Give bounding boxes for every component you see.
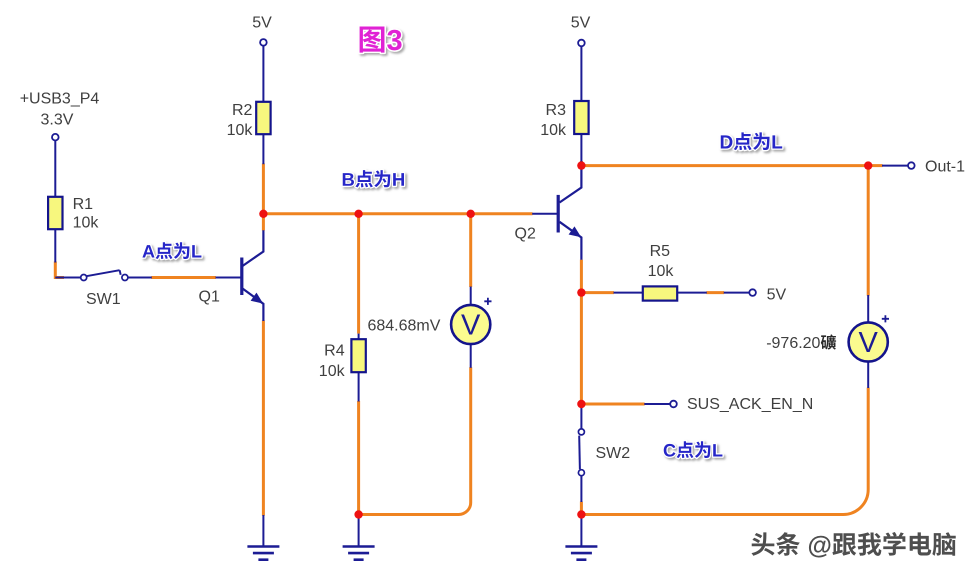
svg-text:5V: 5V [252,15,272,32]
svg-text:SUS_ACK_EN_N: SUS_ACK_EN_N [687,396,813,413]
svg-text:10k: 10k [227,122,254,139]
svg-text:-976.20: -976.20 [766,335,820,352]
svg-text:SW2: SW2 [596,445,631,462]
svg-text:R3: R3 [546,102,567,119]
svg-text:10k: 10k [540,122,567,139]
svg-text:Out-1: Out-1 [925,158,965,175]
svg-text:684.68mV: 684.68mV [367,318,440,335]
svg-text:R5: R5 [650,243,671,260]
svg-text:5V: 5V [571,15,591,32]
svg-text:10k: 10k [319,363,346,380]
svg-text:3.3V: 3.3V [41,112,74,129]
svg-text:R2: R2 [232,102,253,119]
svg-text:R1: R1 [73,196,94,213]
svg-text:V: V [859,327,879,359]
svg-text:V: V [461,310,481,342]
svg-text:Q1: Q1 [199,288,220,305]
svg-text:10k: 10k [73,215,100,232]
svg-text:Q2: Q2 [515,226,536,243]
svg-text:+USB3_P4: +USB3_P4 [20,90,100,107]
svg-text:10k: 10k [648,263,675,280]
svg-text:R4: R4 [324,342,345,359]
svg-text:5V: 5V [767,287,787,304]
svg-text:SW1: SW1 [86,291,121,308]
